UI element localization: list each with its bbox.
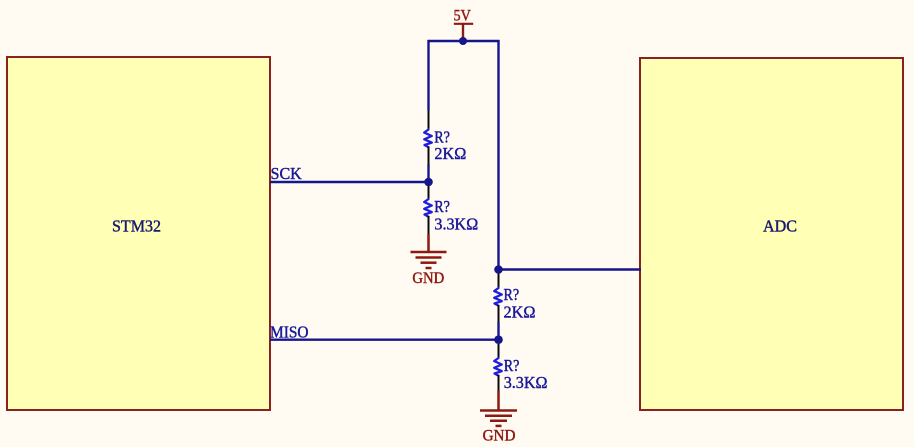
resistor R1 — [424, 111, 432, 166]
sheet symbol ADC — [640, 58, 903, 410]
power symbol 5V — [454, 7, 474, 41]
svg-text:GND: GND — [412, 270, 444, 287]
wire MISO — [270, 339, 499, 341]
wire right rail — [497, 40, 499, 270]
svg-text:2KΩ: 2KΩ — [434, 144, 466, 163]
resistor R3 — [494, 274, 502, 323]
svg-text:ADC: ADC — [763, 216, 797, 235]
wire left rail down to R1 — [427, 40, 429, 111]
resistor R4 — [494, 344, 502, 391]
resistor R2 — [424, 186, 432, 234]
svg-text:STM32: STM32 — [112, 216, 161, 235]
junction SCK node — [424, 178, 433, 187]
wire R3 to MISO node — [497, 322, 499, 340]
ground symbol GND1 — [411, 234, 447, 268]
svg-text:GND: GND — [483, 428, 516, 445]
wire SCK — [270, 181, 429, 183]
wire top rail — [428, 40, 500, 42]
wire R1 to SCK node — [427, 165, 429, 183]
svg-text:R?: R? — [434, 197, 450, 216]
junction 5V node — [459, 37, 467, 45]
svg-text:2KΩ: 2KΩ — [504, 303, 536, 322]
svg-text:5V: 5V — [454, 7, 472, 24]
ground symbol GND2 — [480, 391, 517, 426]
junction ADC node — [494, 265, 503, 274]
svg-text:3.3KΩ: 3.3KΩ — [504, 373, 548, 392]
svg-text:3.3KΩ: 3.3KΩ — [434, 215, 478, 234]
svg-text:R?: R? — [504, 356, 520, 375]
sheet symbol STM32 — [7, 57, 270, 410]
svg-text:MISO: MISO — [270, 322, 309, 341]
svg-text:R?: R? — [504, 285, 520, 304]
wire node to ADC — [499, 268, 642, 270]
svg-text:SCK: SCK — [271, 164, 303, 183]
junction MISO node — [494, 335, 503, 344]
